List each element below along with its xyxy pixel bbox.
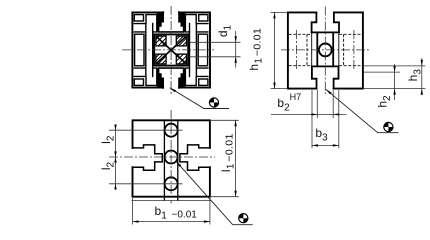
d1 dimension line — [235, 31, 237, 68]
view A vertical centerline — [170, 6, 172, 95]
view B hidden line top-left — [289, 33, 312, 35]
view B hidden line bottom-left — [289, 65, 312, 67]
centroid symbol B — [384, 122, 393, 131]
view C vertical centerline — [170, 110, 172, 204]
view A hatch square BR — [176, 54, 186, 64]
view A outer contour with top/bottom slot gaps — [132, 12, 210, 87]
view A right channel column — [190, 24, 197, 77]
h3 extension line — [363, 65, 426, 67]
view C left T-notch — [133, 145, 163, 170]
leader B arrowhead — [326, 89, 332, 94]
h1 arrow bottom — [273, 83, 275, 89]
centroid symbol C — [239, 214, 248, 223]
b1 arrow right — [204, 220, 210, 222]
view A hatch lines BR — [176, 54, 186, 64]
view A top-left lip block — [157, 12, 163, 32]
view C top bore axis line — [109, 129, 183, 131]
b2 arrow left — [311, 113, 317, 115]
d1 extension line top — [190, 41, 241, 43]
d1 extension line bottom — [190, 56, 241, 58]
l2 dimension line — [115, 124, 117, 190]
view B hidden vertical left — [306, 34, 308, 65]
b1 extension line left — [132, 198, 134, 225]
view B slot axis right — [353, 30, 355, 70]
view A bottom-right L cavity — [185, 68, 208, 85]
b2 dimension line — [271, 113, 347, 115]
view A bottom slot funnel — [159, 68, 184, 88]
view B hidden line top-right — [339, 33, 362, 35]
view A bottom-left L cavity — [134, 68, 157, 85]
view B center bore circle — [319, 44, 332, 57]
view A hatch square TR — [176, 36, 186, 46]
view A hatch lines BL — [156, 54, 166, 64]
l2 arrow top — [114, 125, 116, 131]
h2 arrow top — [393, 66, 395, 72]
b1 dimension line — [133, 221, 210, 223]
view A center core square — [154, 34, 188, 65]
b2 extension line right — [332, 90, 334, 118]
view B top T-slot — [312, 12, 339, 32]
view B slot axis left — [296, 30, 298, 70]
l2 arrow bottom — [114, 184, 116, 190]
view A corner square BL — [134, 79, 143, 85]
d1 arrow bottom — [235, 57, 237, 63]
view C bore channel wall left — [163, 120, 165, 200]
view A corner square BR — [199, 79, 208, 85]
b2 arrow right — [333, 113, 339, 115]
l1 extension line top — [210, 119, 239, 121]
view A bottom-left lip block — [157, 68, 163, 88]
view A hatch square TL — [156, 36, 166, 46]
leader B line — [326, 89, 399, 132]
view A left tall cavity rect — [135, 34, 144, 66]
l2 arrows middle — [114, 151, 116, 157]
leader C line — [176, 161, 253, 224]
h2 extension line — [363, 71, 400, 73]
view C right T-notch — [180, 145, 210, 170]
l1 extension line bottom — [210, 196, 239, 198]
h1 extension line bottom — [271, 88, 288, 90]
leader A line — [170, 88, 229, 109]
view C horizontal centerline — [109, 156, 215, 158]
view A corner square TL — [134, 15, 143, 21]
b1 extension line right — [209, 198, 211, 225]
leader C arrowhead — [176, 161, 181, 167]
h2 arrow bottom — [393, 89, 395, 95]
h3 bottom shared extension line — [363, 88, 426, 90]
l1 arrow top — [234, 120, 236, 126]
h1 arrow top — [273, 12, 275, 18]
h3 arrow bottom — [421, 89, 423, 95]
view B hidden vertical right — [343, 34, 345, 65]
view C bore circle bottom — [165, 177, 178, 190]
view C bore circle middle — [165, 151, 178, 164]
view A top slot funnel — [159, 12, 184, 32]
h2 dimension line — [394, 64, 396, 100]
view A corner square TR — [199, 15, 208, 21]
view C bottom bore axis line — [109, 183, 183, 185]
view A hatch lines TL — [156, 36, 166, 46]
d1 arrow top — [235, 36, 237, 42]
view A core X diagonals — [156, 37, 185, 64]
centroid symbol A — [209, 98, 218, 107]
view B hidden line bottom-right — [339, 65, 362, 67]
view C outer contour with side notch gaps — [133, 120, 210, 196]
view A left channel column — [146, 24, 153, 77]
view B cavity corner connectors — [312, 32, 339, 66]
b3 extension line right — [338, 90, 340, 148]
view A bottom-right lip block — [179, 68, 185, 88]
l1 arrow bottom — [234, 191, 236, 197]
view A hatch lines TR — [176, 36, 186, 46]
b3 arrow right — [333, 144, 339, 146]
view A top-right lip block — [179, 12, 185, 32]
b2 extension line left — [316, 90, 318, 118]
b3 dimension line — [312, 144, 339, 146]
view B horizontal centerline — [281, 49, 370, 51]
view A top-left L cavity — [134, 15, 157, 32]
view C bore channel wall right — [177, 120, 179, 200]
view B vertical centerline — [324, 7, 326, 95]
view B bore channel walls — [317, 32, 333, 66]
leader A arrowhead — [170, 88, 176, 92]
view C bore circle top — [165, 124, 178, 137]
h3 dimension line — [421, 58, 423, 95]
view B outer contour with slot openings — [288, 12, 363, 88]
view A right tall cavity rect — [198, 34, 207, 66]
b3 arrow left — [312, 144, 318, 146]
h3 arrow top — [421, 60, 423, 66]
view A top-right L cavity — [185, 15, 208, 32]
view B bottom T-slot — [312, 66, 339, 88]
l1 dimension line — [235, 120, 237, 196]
b3 extension line left — [311, 90, 313, 148]
view A horizontal centerline — [122, 49, 214, 51]
view A hatch square BL — [156, 54, 166, 64]
b1 arrow left — [133, 220, 139, 222]
view C bottom chamfer line — [132, 200, 212, 202]
h1 dimension line — [274, 12, 276, 88]
h1 extension line top — [271, 11, 288, 13]
